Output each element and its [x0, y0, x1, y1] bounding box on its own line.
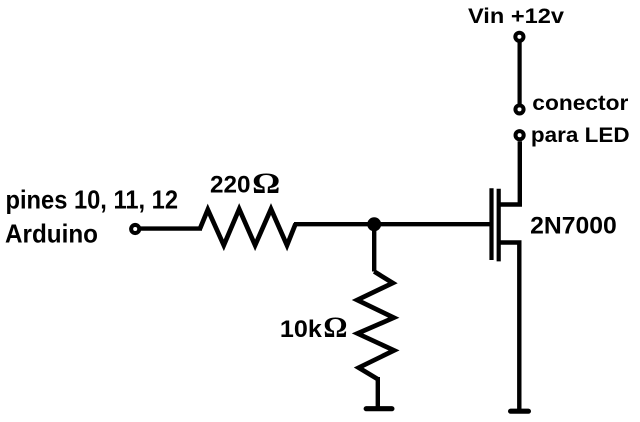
- wire junction to R 10k: [372, 226, 376, 272]
- ground bar under 10k: [366, 406, 392, 411]
- ground bar under source: [511, 409, 529, 414]
- wire Vin to conector: [517, 43, 521, 105]
- terminal Vin +12v: [515, 33, 523, 41]
- terminal conector: [515, 105, 523, 113]
- wire para LED to drain: [499, 141, 520, 204]
- resistor 10k zigzag: [357, 272, 394, 380]
- terminal Arduino pin: [131, 225, 139, 233]
- junction node dot: [367, 217, 381, 231]
- transistor 2N7000 gate bar: [489, 188, 493, 260]
- wire R220 to gate: [294, 222, 490, 226]
- svg-text:10k: 10k: [280, 316, 323, 343]
- svg-text:Vin +12v: Vin +12v: [468, 5, 564, 28]
- svg-text:2N7000: 2N7000: [530, 212, 617, 239]
- svg-text:para LED: para LED: [531, 124, 630, 147]
- wire terminal to R 220: [141, 226, 203, 230]
- wire source to ground: [499, 243, 519, 412]
- transistor 2N7000 channel bar: [497, 189, 501, 262]
- svg-text:220: 220: [210, 171, 251, 198]
- terminal para LED: [516, 131, 524, 139]
- resistor 220 ohm zigzag: [200, 209, 296, 245]
- svg-text:Arduino: Arduino: [5, 219, 98, 249]
- svg-text:Ω: Ω: [252, 167, 280, 200]
- svg-text:pines 10, 11, 12: pines 10, 11, 12: [6, 185, 179, 215]
- svg-text:Ω: Ω: [323, 311, 347, 344]
- svg-text:conector: conector: [532, 92, 628, 115]
- wire R10k to ground: [376, 377, 380, 407]
